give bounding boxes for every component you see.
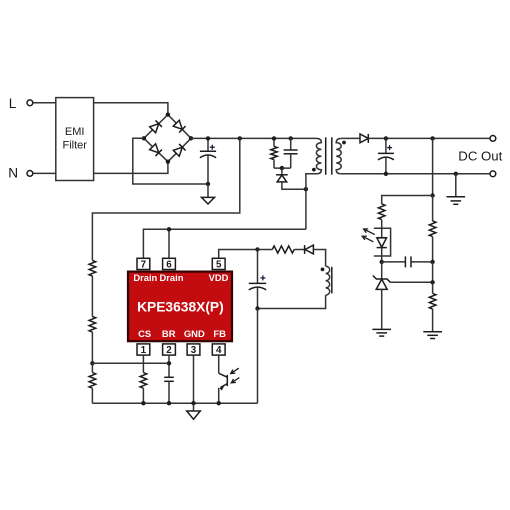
wire pin5 to VDD node — [219, 250, 258, 259]
diode D5 clamp (pointing up) — [276, 168, 306, 189]
resistor R7 divider lower — [429, 293, 436, 309]
node clamp to winding junction — [304, 187, 308, 191]
resistor R8 VDD series — [272, 246, 294, 253]
pin 7 box — [137, 258, 150, 270]
node opto branch junction — [430, 193, 434, 197]
wire primary ground rail — [92, 402, 257, 404]
svg-text:3: 3 — [191, 345, 197, 356]
ground primary (open triangle) below C1 — [202, 184, 215, 204]
wire rectified bus rail — [191, 137, 317, 139]
wire comp node to ref node — [432, 262, 434, 282]
node rail snubber R — [272, 136, 276, 140]
node rail snubber C — [289, 136, 293, 140]
wire R9 to ground rail — [142, 388, 144, 403]
wire R3 to ground rail — [91, 388, 93, 403]
capacitor C1 bottom lead — [207, 155, 209, 184]
capacitor C5 VDD polarized — [249, 275, 266, 290]
node N terminal — [8, 166, 33, 181]
node BR line pin2 junction — [167, 361, 171, 365]
node DC minus ground junction — [454, 172, 458, 176]
node snubber clamp junction — [280, 166, 284, 170]
wire EMI bottom output to bridge bottom — [94, 162, 168, 174]
wire secondary bottom rail to DC Out - — [341, 173, 490, 175]
snubber resistor top lead — [273, 138, 275, 146]
node bridge right junction — [189, 136, 193, 140]
resistor R9 current sense — [140, 373, 147, 389]
wire below BR node — [91, 363, 93, 372]
capacitor C6 BR — [164, 377, 174, 381]
node rail junction to BR feed — [238, 136, 242, 140]
svg-text:EMI: EMI — [65, 126, 85, 138]
wire ref node to lower resistor — [432, 282, 434, 293]
wire divider node to upper resistor — [432, 196, 434, 222]
phototransistor arrow 1 — [231, 368, 239, 373]
svg-text:7: 7 — [141, 259, 147, 270]
wire BR line to pin 2 — [92, 362, 169, 364]
resistor R2 startup lower — [89, 317, 96, 333]
node DC Out + terminal — [490, 136, 496, 142]
LED emission arrow 2 — [362, 236, 373, 242]
node divider top — [430, 136, 434, 140]
ground earth below shunt regulator — [372, 329, 391, 336]
capacitor C2 snubber — [284, 150, 298, 154]
resistor R5 LED series — [378, 204, 385, 220]
svg-text:Filter: Filter — [62, 140, 87, 152]
wire N to EMI filter — [33, 172, 56, 174]
capacitor C2 bottom lead — [290, 154, 292, 168]
node opto emitter ground junction — [217, 401, 221, 405]
capacitor C3 output polarized — [378, 145, 394, 160]
svg-text:VDD: VDD — [209, 272, 229, 283]
wire pin 2 BR down — [168, 355, 170, 377]
diode D7 VDD (pointing left) — [305, 245, 314, 254]
capacitor C1 bulk polarized — [200, 145, 216, 158]
capacitor C5 bottom lead — [257, 288, 259, 309]
node C1 bottom junction — [206, 182, 210, 186]
svg-text:2: 2 — [166, 345, 172, 356]
pin 1 box — [137, 344, 150, 356]
pin 5 box — [212, 258, 225, 270]
capacitor C4 compensation — [382, 256, 433, 267]
wire snubber R bottom — [273, 160, 275, 169]
svg-text:L: L — [9, 96, 17, 111]
diode D6 output rectifier — [360, 134, 368, 143]
node BR cap ground junction — [167, 401, 171, 405]
svg-text:GND: GND — [184, 328, 205, 339]
svg-text:DC Out: DC Out — [458, 148, 502, 163]
wire between R1 and R2 — [91, 276, 93, 317]
svg-text:Drain: Drain — [133, 272, 157, 283]
wire R6 to comp cap node — [432, 237, 434, 262]
pin 3 box — [187, 344, 200, 356]
wire R2 to BR node — [91, 332, 93, 363]
resistor R1 startup upper — [89, 260, 96, 276]
pin 4 box — [212, 344, 225, 356]
node bridge top junction — [166, 112, 170, 116]
transformer T1 primary phase dot — [312, 168, 316, 172]
svg-text:4: 4 — [216, 345, 222, 356]
auxiliary winding T1 aux — [326, 266, 332, 295]
optocoupler LED box — [374, 228, 391, 256]
capacitor C5 VDD top lead — [257, 250, 259, 284]
wire pin 6 to drain line — [168, 229, 170, 258]
node comp cap divider junction — [430, 260, 434, 264]
transformer T1 secondary winding — [336, 139, 341, 174]
wire pin 3 GND down — [193, 355, 195, 403]
node rail junction C1 — [206, 136, 210, 140]
LED emission arrow 1 — [364, 229, 375, 235]
capacitor C1 bulk top lead — [207, 138, 209, 151]
zener/shunt regulator U3 — [373, 262, 391, 329]
wire rail down to BR feed line — [92, 138, 239, 260]
capacitor C3 bottom lead — [385, 158, 387, 174]
bridge diode D2 (top-right edge, points to right node) — [173, 120, 186, 133]
EMI filter block — [56, 98, 94, 181]
wire pin 1 CS down — [142, 355, 144, 373]
wire output rail to DC Out + — [368, 137, 490, 139]
capacitor C3 output top lead — [385, 138, 387, 153]
svg-text:6: 6 — [166, 259, 172, 270]
svg-text:5: 5 — [216, 259, 222, 270]
transformer T1 core — [326, 137, 332, 174]
svg-text:BR: BR — [162, 328, 176, 339]
node output cap top — [384, 136, 388, 140]
wire pin 4 FB down — [218, 355, 220, 373]
node bridge left junction — [142, 136, 146, 140]
wire EMI top output to bridge top — [94, 103, 168, 115]
svg-text:FB: FB — [213, 328, 226, 339]
ground secondary earth below DC - — [447, 174, 466, 205]
node reference divider junction — [430, 280, 434, 284]
wire divider vertical from output rail — [432, 138, 434, 195]
bridge diode D1 (left-top edge, points to top node) — [149, 120, 162, 133]
ground earth below divider — [423, 332, 442, 339]
LED of optocoupler U2 — [377, 238, 387, 262]
resistor R6 divider upper — [429, 221, 436, 237]
ground primary (open triangle) below pin 3 — [187, 403, 201, 419]
node bridge bottom junction — [166, 160, 170, 164]
svg-text:CS: CS — [138, 328, 151, 339]
capacitor C2 snubber top lead — [290, 138, 292, 149]
op chip U1 KPE3638X(P) body — [128, 272, 232, 342]
svg-text:KPE3638X(P): KPE3638X(P) — [137, 300, 224, 315]
svg-text:1: 1 — [141, 345, 147, 356]
wire reference line to divider — [390, 281, 432, 283]
node LED cathode junction — [380, 260, 384, 264]
wire aux winding bottom return — [258, 295, 326, 308]
resistor R4 snubber — [271, 146, 277, 159]
node output cap bottom — [384, 172, 388, 176]
svg-text:N: N — [8, 166, 18, 181]
wire VDD node to resistor — [258, 249, 273, 251]
phototransistor Q1 of optocoupler — [219, 373, 228, 403]
resistor R3 lower divider — [89, 373, 96, 389]
wire drain line — [143, 229, 306, 258]
transformer T1 primary winding — [306, 139, 322, 230]
wire bridge left node jog to capacitor bottom — [133, 138, 208, 184]
pin 6 box — [163, 258, 176, 270]
node L terminal — [9, 96, 33, 111]
node VDD cap top junction — [255, 247, 259, 251]
wire R5 to LED — [381, 220, 383, 238]
wire secondary top to output diode — [341, 137, 360, 139]
node BR line left junction — [90, 361, 94, 365]
phototransistor arrow 2 — [231, 378, 239, 383]
bridge diode D4 (bottom-right edge, points to right node) — [173, 144, 186, 157]
aux winding phase dot — [321, 268, 325, 272]
node CS ground junction — [141, 401, 145, 405]
bridge diode D3 (bottom-left edge, points to bottom node) — [149, 143, 162, 156]
bridge rectifier diamond wires — [144, 115, 191, 162]
wire VDD return to ground rail — [257, 309, 259, 404]
wire L to EMI filter — [33, 102, 56, 104]
wire R8 to diode — [294, 249, 304, 251]
wire snubber RC join — [274, 167, 291, 169]
pin 2 box — [163, 344, 176, 356]
node DC Out - terminal — [490, 171, 496, 177]
node pin6 drain junction — [167, 227, 171, 231]
wire diode to aux winding — [313, 250, 325, 267]
node VDD cap bottom junction — [255, 306, 259, 310]
svg-text:Drain: Drain — [160, 272, 184, 283]
capacitor C6 bottom lead — [168, 381, 170, 403]
node GND rail junction — [191, 401, 195, 405]
wire opto branch to LED resistor — [382, 196, 433, 205]
wire R7 to ground — [432, 309, 434, 331]
transformer T1 secondary phase dot — [342, 141, 346, 145]
